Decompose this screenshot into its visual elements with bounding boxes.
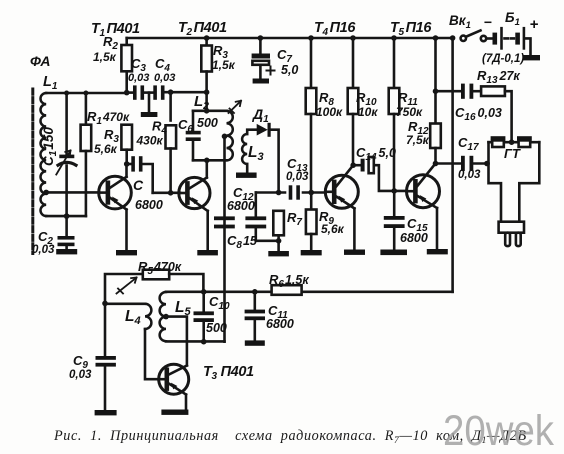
svg-text:20wek: 20wek [443,407,554,454]
capacitor C12 [214,216,235,228]
wire C4 to tank node [165,91,207,94]
ground L3 [236,164,257,178]
svg-text:6800: 6800 [135,198,163,212]
svg-text:(7Д-0,1): (7Д-0,1) [482,53,524,65]
coil L1 [41,93,47,216]
svg-text:Т4П16: Т4П16 [314,20,356,38]
plus sign C7 [267,67,275,75]
svg-text:1,5к: 1,5к [212,58,236,72]
node T2 base [168,190,174,196]
svg-text:0,03: 0,03 [458,169,481,181]
transistor T4 [325,165,358,249]
svg-text:ФА: ФА [30,53,51,69]
wire L5 tap to T3 collector [166,317,187,366]
wire C5 out to T2 base [153,192,180,195]
resistor R4 [166,92,177,193]
resistor R3 (5,6k) [121,125,132,164]
ground T1 emitter [116,250,137,255]
resistor R13 [481,86,512,142]
svg-text:0,03: 0,03 [69,369,92,381]
resistor R11 [389,38,400,191]
node R5/C10 [201,289,207,295]
node L2 tap [222,134,228,140]
switch Vk1 [461,31,493,42]
node rail-supply drop [450,35,456,41]
node rail-R12 [433,35,439,41]
node R1 top [83,91,88,96]
svg-text:0,03: 0,03 [128,72,149,84]
ground C7 [253,79,269,84]
node tank top line / R3a [204,89,210,95]
svg-text:C160,03: C160,03 [455,105,502,123]
ground C9 [95,410,117,415]
transistor T2 [179,160,210,250]
variable arrow R5 [117,278,137,294]
wire L4 bottom to T3 base [145,329,159,379]
svg-text:7,5к: 7,5к [406,133,430,147]
transistor T1 [99,164,132,250]
C17 line [436,162,462,165]
ground T2 emitter [197,250,218,255]
resistor R12 column [430,38,441,164]
svg-text:100к: 100к [316,105,343,119]
svg-text:430к: 430к [136,134,164,148]
resistor R7 [273,211,284,251]
svg-text:6800: 6800 [227,199,255,213]
svg-text:750к: 750к [396,105,423,119]
svg-text:L5: L5 [175,299,191,318]
svg-text:Д1: Д1 [252,106,269,125]
node T5 collector / C17 [433,161,439,167]
node T5 base [391,188,397,194]
ground T3 emitter [161,410,188,415]
node diode/R7 [276,190,282,196]
variable capacitor C1 [56,93,76,216]
svg-text:Т3П401: Т3П401 [203,364,254,382]
resistor R3a (1,5k at T2) [201,38,212,111]
transistor T3 [159,364,189,409]
resistor R6 [272,285,302,295]
L2/C6 tank top [193,110,227,113]
detector line y192.5 [256,191,285,194]
node rail-R3a [204,35,210,41]
transistor T5 [407,164,440,250]
variable arrow L2 [229,101,242,113]
top supply rail [127,37,453,40]
ground battery [523,55,541,60]
svg-text:Б1: Б1 [505,10,520,28]
svg-text:6800: 6800 [400,231,428,245]
node rail-R11 [391,35,397,41]
capacitor C4 [153,85,164,99]
svg-text:500: 500 [197,116,218,130]
svg-text:C815: C815 [227,233,258,251]
capacitor C6 [186,111,201,161]
node rail-R8 [308,35,314,41]
ground T5 emitter [427,249,448,254]
left feed line y93 from L1 top to R2 node [46,92,127,95]
ground T4 emitter [344,250,365,255]
coil L2 [227,111,233,161]
svg-text:C6: C6 [178,117,193,135]
ground R7 [268,251,289,256]
svg-text:Т2П401: Т2П401 [178,20,227,38]
capacitor C9 [96,303,116,410]
resistor R8 [306,38,317,193]
resistor R10 [348,38,359,165]
capacitor C8 [245,193,278,241]
capacitor C3 [133,85,153,99]
svg-text:Вк1: Вк1 [449,13,471,31]
node T4 collector / C14 [350,162,356,168]
svg-text:C: C [133,177,144,193]
battery B1 [493,28,531,55]
capacitor C7 [252,38,270,79]
node L4 top [102,301,108,307]
svg-text:C17: C17 [458,135,479,153]
wire L5 bottom line [166,340,225,343]
capacitor C15 [384,191,405,250]
wire T1 base line [46,191,99,194]
headphone GT [489,136,540,246]
coil L4 [145,304,151,329]
svg-text:5,0: 5,0 [281,63,298,77]
svg-text:L1: L1 [43,74,58,92]
node C2 top [64,213,70,219]
supply drop to bottom feed line [451,38,454,292]
svg-text:0,03: 0,03 [32,244,55,256]
svg-text:C10: C10 [209,294,230,312]
resistor R2 [121,38,132,93]
capacitor C13 [289,185,300,199]
svg-text:L4: L4 [125,308,141,327]
wire L4 top line [105,302,145,305]
svg-text:0,03: 0,03 [154,72,175,84]
node R13/GT top [509,139,515,145]
svg-text:C1150: C1150 [41,127,59,166]
node C1 top [64,91,69,96]
node C11 [252,289,258,295]
svg-text:6800: 6800 [266,317,294,331]
svg-text:Т5П16: Т5П16 [390,20,432,38]
ground R9 [301,250,322,255]
node C17/GT [484,161,490,167]
node rail-R10 [350,35,356,41]
svg-text:10к: 10к [358,105,378,119]
capacitor C10 [194,292,214,342]
capacitor C14 (electrolytic) [353,157,406,191]
svg-text:ГТ: ГТ [504,146,521,161]
node R3b/C5 [124,161,130,167]
svg-text:R1327к: R1327к [477,68,520,86]
capacitor C (6800) at T1 [127,156,153,193]
tank bottom line [193,159,227,162]
svg-text:R7: R7 [287,210,302,228]
node T4 base [308,190,314,196]
wire C3-C4 line [127,91,133,94]
svg-text:−: − [484,14,492,30]
wire L2 tap down (C12 column) [223,136,226,341]
ground C2 [56,249,77,254]
node R7 bottom [276,238,282,244]
C16 line [436,90,462,93]
node rail-C7 [258,35,264,41]
ground stub between C3 and C4 [141,93,158,117]
capacitor C11 [245,292,265,341]
node C16 tap [433,88,439,94]
coil L5 [160,292,166,341]
resistor R5 [105,270,203,304]
svg-text:5,6к: 5,6к [94,142,118,156]
svg-text:1,5к: 1,5к [93,50,117,64]
node R4 top [168,89,174,95]
bottom feed line R6 [166,290,453,293]
node tank bottom / T2 collector [204,158,210,164]
node L1 tap [43,190,49,196]
coil L3 [242,134,247,164]
svg-text:+: + [530,16,539,33]
capacitor C2 [58,216,75,249]
svg-text:L3: L3 [248,144,264,163]
svg-text:500: 500 [206,321,227,335]
ground C11 [245,340,265,345]
node R2/C3 [124,90,130,96]
capacitor C17 [461,156,489,171]
svg-text:0,03: 0,03 [286,171,309,183]
node L5 tap [163,314,169,320]
node C10 bottom [201,339,207,345]
svg-text:Т1П401: Т1П401 [91,21,140,39]
ground C15 [380,250,407,256]
resistor R9 [306,193,317,251]
svg-text:5,6к: 5,6к [321,222,345,236]
capacitor C16 [461,84,481,99]
bottom antenna line [46,215,86,218]
diode D1 [247,123,278,193]
ferrite rod (dashed) [31,89,34,254]
resistor R1 [81,93,92,216]
